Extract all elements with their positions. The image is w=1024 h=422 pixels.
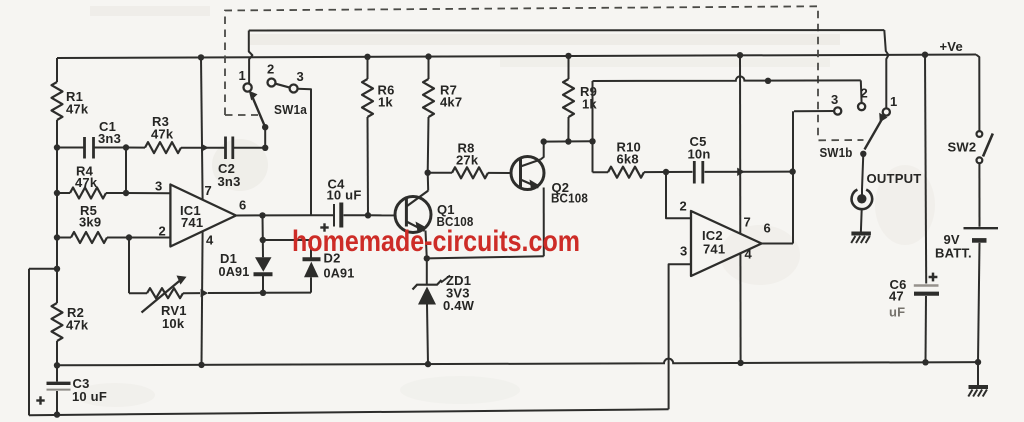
wire battery to mid rail	[978, 243, 980, 362]
wire node to IC1 pin 2	[129, 237, 170, 239]
wire IC2 pin2 lead	[666, 172, 691, 218]
svg-text:0.4W: 0.4W	[443, 298, 475, 313]
wire Q1 collector up	[427, 173, 430, 191]
node junction R5 / IC1 pin2 / RV1	[126, 234, 132, 240]
wire SW1b pole feed drop	[884, 30, 888, 108]
node junction left rail / C1 row	[54, 144, 60, 150]
label C6 value	[889, 277, 907, 320]
svg-text:3: 3	[831, 92, 838, 107]
label R1 value	[66, 89, 89, 117]
svg-text:1: 1	[890, 94, 897, 109]
wire R3 to C2	[181, 147, 225, 149]
switch SW1b pin 1 contact	[883, 108, 890, 115]
wire emitter row	[427, 256, 544, 258]
capacitor C5	[694, 161, 703, 184]
label C2 value	[218, 161, 241, 189]
ground under output jack	[851, 234, 871, 244]
label R5 value	[79, 203, 101, 230]
svg-text:47k: 47k	[66, 102, 89, 117]
node junction IC1 output / D1	[259, 212, 265, 218]
svg-text:3k9: 3k9	[79, 215, 101, 230]
svg-text:2: 2	[680, 199, 687, 214]
output jack	[852, 190, 873, 210]
diode D1 0A91	[254, 257, 273, 293]
wire left rail top segment	[56, 58, 58, 82]
svg-text:3n3: 3n3	[218, 174, 241, 189]
label C3 value	[72, 376, 107, 404]
svg-text:1k: 1k	[582, 97, 597, 112]
wire Q2 emitter riser	[543, 188, 545, 257]
svg-text:SW1a: SW1a	[274, 102, 308, 117]
svg-text:3n3: 3n3	[98, 131, 121, 146]
svg-text:1k: 1k	[378, 95, 393, 110]
resistor R9	[563, 79, 574, 117]
label C3 polarity +	[36, 396, 44, 404]
svg-text:47k: 47k	[151, 127, 174, 142]
switch SW2	[977, 131, 993, 163]
node junction C4 / R6 / Q1 base	[365, 212, 371, 218]
resistor R8	[452, 167, 488, 178]
wire output to SW1a pin3 corner	[263, 214, 312, 216]
wire feedback stub horizontal	[29, 268, 57, 270]
wire C6 branch drop	[925, 55, 926, 284]
label D1 value	[219, 251, 250, 279]
label IC1 pin 2	[159, 224, 166, 239]
svg-text:6: 6	[764, 221, 771, 236]
wire R5 to node	[107, 237, 129, 239]
wire R10 lead	[593, 171, 609, 173]
wire jack to ground	[860, 209, 863, 231]
node junction left rail / R4 row	[54, 190, 60, 196]
svg-text:4k7: 4k7	[440, 95, 462, 110]
node junction D1 / D2 top row	[260, 237, 266, 243]
wire SW1a pole drop with jog	[249, 31, 253, 84]
wire hop over IC1 pin7 line	[201, 144, 209, 152]
wire IC1 pin4 down	[202, 232, 203, 365]
resistor R5	[71, 232, 107, 243]
label SW1a pin 2	[267, 62, 274, 77]
node junction R10 / C5 / IC2 pin2	[663, 169, 669, 175]
node junction mid rail / battery	[975, 359, 981, 365]
wire bottom feedback rail	[29, 409, 669, 415]
node junction D1 cathode row	[260, 290, 266, 296]
wire Q2 collector up	[541, 142, 544, 160]
label IC1 pin 6	[239, 198, 246, 213]
wire IC1 output	[236, 214, 263, 216]
label C5 value	[688, 134, 711, 162]
switch SW1b pin 2 contact	[858, 103, 865, 110]
wire node to Q1 base	[368, 214, 396, 216]
svg-text:10k: 10k	[162, 316, 185, 331]
wire IC2 pin3 lead	[669, 264, 691, 409]
wire +Ve supply rail (top)	[57, 55, 976, 59]
wire outer-left vertical	[28, 269, 30, 416]
ground battery negative	[968, 387, 988, 397]
wire left rail C1 row to R4 row	[56, 148, 58, 194]
resistor R1	[52, 82, 63, 120]
label IC2 pin 6	[764, 221, 771, 236]
label RV1 value	[161, 303, 187, 331]
svg-text:uF: uF	[889, 305, 905, 320]
wire IC2 pin4 down	[739, 253, 741, 363]
label IC1 pin 3	[155, 179, 162, 194]
wire C1 row from left rail	[57, 147, 84, 149]
label SW1a pin 1	[239, 68, 246, 83]
label battery value	[935, 232, 972, 261]
switch SW1a pin 3 contact	[290, 85, 298, 93]
svg-text:741: 741	[703, 242, 725, 257]
wire left rail R5 row to feedback stub	[56, 238, 58, 269]
diode D2 0A91	[303, 259, 321, 292]
transistor Q1 BC108	[395, 191, 431, 233]
wire IC1 pin7 supply	[201, 57, 203, 199]
wire D2 top stub	[310, 240, 312, 258]
svg-text:OUTPUT: OUTPUT	[867, 171, 922, 186]
label R10 value	[617, 140, 641, 167]
wire R9 bottom	[567, 117, 569, 142]
svg-text:7: 7	[744, 215, 751, 230]
svg-text:3: 3	[680, 244, 687, 259]
svg-text:2: 2	[861, 86, 868, 101]
node junction R7 / R8 / Q1 collector	[425, 170, 431, 176]
capacitor C2	[226, 137, 233, 160]
label IC2 pin 7	[744, 215, 751, 230]
wire feedback top line	[593, 76, 861, 81]
wire SW1 gang dashed link	[225, 6, 864, 140]
potentiometer RV1	[142, 276, 187, 313]
wire C6 to mid rail	[925, 296, 928, 362]
svg-text:4: 4	[745, 247, 753, 262]
label IC2 pin 2	[680, 199, 687, 214]
label ZD1 value	[443, 273, 475, 313]
wire R10 branch riser	[592, 81, 594, 141]
svg-text:2: 2	[267, 62, 274, 77]
node junction mid rail / ZD1	[425, 361, 431, 367]
node junction on feedback top line	[765, 78, 771, 84]
node junction left rail / R5 row	[54, 234, 60, 240]
capacitor C6	[914, 286, 939, 294]
node junction C1/R3/R4 vertical	[123, 144, 129, 150]
wire Q1 emitter down	[426, 231, 427, 259]
svg-text:3: 3	[155, 179, 162, 194]
wire C1 to R3 node	[95, 147, 127, 149]
resistor R4	[70, 188, 106, 199]
switch SW1a pin 1 contact	[244, 83, 252, 91]
label Q2	[551, 180, 588, 206]
capacitor C1	[85, 137, 94, 159]
wire R4 to node	[106, 192, 126, 194]
wire R6 bottom	[367, 117, 370, 215]
node junction emitter row / ZD1	[424, 255, 430, 261]
svg-text:741: 741	[181, 215, 203, 230]
wire R9 top	[568, 56, 570, 79]
wire C2 to SW1a wiper node	[234, 147, 265, 149]
wire node to IC1 pin 3	[126, 192, 170, 194]
node junction on +Ve rail at IC1 pin7 branch	[198, 54, 204, 60]
wire node to R3	[126, 147, 145, 149]
wire hop over IC1 pin4 line	[201, 289, 209, 297]
label C4 value	[327, 177, 362, 203]
label Q1	[437, 202, 474, 229]
wire D2 top row	[263, 239, 311, 241]
svg-text:10n: 10n	[688, 147, 711, 162]
svg-text:SW1b: SW1b	[820, 145, 853, 160]
wire D1 top stub	[262, 240, 264, 257]
wire C4 to R6 node	[344, 214, 369, 216]
label R7 value	[440, 83, 462, 110]
svg-text:homemade-circuits.com: homemade-circuits.com	[292, 225, 580, 258]
wire left rail R1 to C1 row	[56, 120, 58, 148]
node junction output / SW1b pin3 line	[789, 168, 795, 174]
wire feedback top corner to SW1b pin2	[860, 80, 863, 103]
svg-text:+Ve: +Ve	[940, 39, 963, 54]
wire diode bottom row	[208, 292, 263, 294]
svg-text:BC108: BC108	[551, 191, 588, 206]
node junction R4 / IC1 pin3	[123, 190, 129, 196]
wire C5 to output node	[705, 171, 793, 173]
wire SW2 to battery	[978, 163, 980, 227]
node junction mid rail / C6	[922, 359, 928, 365]
label IC1 pin 4	[206, 233, 214, 248]
wire pole to output jack	[862, 154, 863, 190]
switch SW1a pin 2 contact	[268, 79, 276, 87]
label IC1 pin 7	[205, 183, 212, 198]
label +Ve	[940, 39, 963, 54]
node junction on +Ve rail at R7	[425, 53, 431, 59]
wire hop over IC2 pin7 line	[737, 168, 745, 176]
node junction mid rail / IC1 pin4	[198, 362, 204, 368]
node junction SW1a wiper elbow	[262, 124, 268, 130]
wire RV1 row start	[129, 292, 147, 294]
wire SW1 pole feed line	[249, 29, 885, 31]
label SW1a	[274, 102, 308, 117]
svg-text:6: 6	[239, 198, 246, 213]
wire C3 to bottom rail	[56, 391, 58, 415]
wire IC2 output to riser	[762, 243, 793, 245]
wire output to C4	[311, 214, 333, 216]
node junction on +Ve rail at IC2 pin7 branch	[737, 52, 743, 58]
svg-text:47: 47	[889, 289, 904, 304]
wire SW1b pin3 lead	[794, 110, 834, 112]
svg-text:1: 1	[239, 68, 246, 83]
label R9 value	[580, 84, 597, 112]
resistor R10	[608, 167, 644, 178]
svg-text:6k8: 6k8	[617, 152, 639, 167]
label SW2	[948, 140, 977, 155]
wire SW1b pin3 riser	[792, 111, 794, 243]
label SW1b	[820, 145, 853, 160]
label SW1b pin 2	[861, 86, 868, 101]
wire left rail R4 row to R5 row	[56, 193, 58, 238]
node junction mid rail / IC2 pin4	[737, 360, 743, 366]
wire vertical node to RV1	[128, 238, 130, 294]
label R3 value	[151, 114, 174, 142]
switch SW1b pin 3 contact	[834, 107, 841, 114]
wire collector row	[544, 140, 593, 142]
label C6 polarity +	[929, 273, 938, 282]
label SW1a pin 3	[297, 69, 304, 84]
node junction C2 / SW1a wiper	[262, 145, 268, 151]
label R8 value	[456, 141, 479, 168]
op-amp IC1 741	[170, 185, 236, 247]
label C4 polarity +	[320, 223, 328, 231]
node junction collector row / R10 branch	[589, 138, 595, 144]
label IC2 pin 4	[745, 247, 753, 262]
battery B1 9V	[964, 228, 999, 240]
svg-text:BATT.: BATT.	[935, 246, 972, 261]
watermark text	[292, 225, 580, 258]
label OUTPUT	[867, 171, 922, 186]
wire rail corner to SW2	[976, 55, 979, 131]
node junction on +Ve rail at R6	[364, 54, 370, 60]
wire R8 to Q2 base	[488, 172, 512, 174]
wire R2 to C3	[56, 341, 58, 382]
wire R6 top	[367, 57, 369, 79]
node junction on +Ve rail at R9	[565, 53, 571, 59]
node junction C3 / bottom rail	[54, 411, 60, 417]
wire C5 lead	[666, 171, 693, 173]
node junction SW1b pole	[860, 151, 866, 157]
svg-text:3: 3	[297, 69, 304, 84]
resistor R7	[423, 79, 434, 117]
wire R7 top	[428, 57, 430, 79]
node junction left rail / feedback stub	[54, 266, 60, 272]
resistor R6	[362, 79, 373, 117]
wire battery ground stub	[977, 362, 979, 385]
wire SW1a pin3 down	[298, 89, 311, 216]
label R2 value	[66, 305, 89, 333]
wire SW1a pin2-pin3 link	[276, 84, 290, 88]
wire R7 bottom	[427, 117, 430, 173]
wire RV1 to diodes row	[183, 292, 200, 294]
label R6 value	[378, 83, 395, 110]
svg-text:SW2: SW2	[948, 140, 977, 155]
svg-text:10 uF: 10 uF	[327, 188, 362, 203]
label R4 value	[75, 164, 98, 191]
wire SW1a wiper to C2 node	[264, 127, 266, 148]
transistor Q2 BC108	[511, 157, 544, 190]
capacitor C3	[47, 383, 71, 389]
node junction left rail / mid ground rail	[54, 362, 60, 368]
resistor R2	[52, 303, 63, 341]
wire left rail stub to R2	[56, 269, 58, 303]
wire R8 lead	[428, 172, 452, 174]
switch SW1a wiper arm	[249, 91, 265, 127]
label D2 value	[324, 251, 355, 281]
wire D1 row to D2	[263, 292, 311, 294]
wire IC2 pin7 supply	[739, 55, 741, 233]
label IC2 pin 3	[680, 244, 687, 259]
label SW1b pin 3	[831, 92, 838, 107]
wire R10 to C5 node	[644, 171, 666, 173]
wire mid ground rail	[57, 359, 978, 366]
switch SW1b wiper arm	[865, 113, 888, 150]
wire R5 row from left rail	[57, 237, 71, 239]
wire vertical C1-R3 node to R4 row	[125, 148, 127, 194]
node junction Q2 collector row	[541, 138, 547, 144]
node junction R9 / collector row	[565, 138, 571, 144]
svg-text:10 uF: 10 uF	[72, 389, 107, 404]
wire R4 row from left rail	[57, 192, 70, 194]
resistor R3	[145, 142, 181, 153]
svg-text:27k: 27k	[456, 153, 479, 168]
wire R10 branch drop	[592, 141, 594, 172]
svg-text:47k: 47k	[75, 175, 98, 190]
svg-text:4: 4	[206, 233, 214, 248]
svg-text:47k: 47k	[66, 318, 89, 333]
capacitor C4	[334, 203, 341, 228]
svg-text:7: 7	[205, 183, 212, 198]
op-amp IC2 741	[691, 211, 762, 276]
zener diode ZD1	[413, 258, 451, 364]
node junction on +Ve rail at C6 branch	[922, 52, 928, 58]
label C1 value	[98, 119, 121, 146]
svg-text:0A91: 0A91	[219, 264, 250, 279]
svg-text:0A91: 0A91	[324, 266, 355, 281]
wire D1 anode	[262, 215, 264, 240]
svg-text:2: 2	[159, 224, 166, 239]
label SW1b pin 1	[890, 94, 897, 109]
